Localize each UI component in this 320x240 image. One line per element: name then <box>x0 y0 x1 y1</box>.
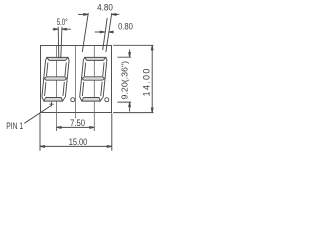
digit 2 seven-segment <box>79 57 107 101</box>
4.80 extension line left <box>82 13 88 52</box>
digit 2 segment A band fill <box>84 57 106 60</box>
digit 1 segment G outline <box>44 77 67 80</box>
7.50 extension tails <box>57 129 95 131</box>
svg-text:PIN 1: PIN 1 <box>6 121 23 131</box>
dim 15.00 line and arrows <box>40 145 112 147</box>
digit 2 segment G band fill <box>82 77 105 80</box>
svg-text:7.50: 7.50 <box>70 118 85 128</box>
5.0 deg extension lines <box>58 27 62 59</box>
digit 2 segment G outline <box>82 77 105 80</box>
9.20 extension ticks <box>118 57 132 102</box>
digit 1 segment D band fill <box>44 98 63 102</box>
0.80 extension line <box>103 18 108 50</box>
digit 1 seven-segment <box>41 57 69 101</box>
digit 2 segment A inner edge and joints <box>84 57 106 60</box>
wire center line digit1 <box>56 46 58 129</box>
digit 1 outer outline <box>41 57 69 101</box>
dim 9.20 vertical with outside arrows <box>129 49 131 53</box>
dim 0.80 left arrow <box>95 31 101 33</box>
digit 1 segment A band fill <box>46 57 68 60</box>
dim 0.80 right arrow <box>112 31 113 33</box>
svg-text:15.00: 15.00 <box>69 136 88 147</box>
dim 5.0deg left arrow <box>53 28 55 30</box>
digit 1 segment G band fill <box>44 77 67 80</box>
dim 7.50 line and arrows <box>57 126 95 128</box>
digit 1 segment D inner edge and joints <box>44 98 63 102</box>
15.00 extension lines <box>40 113 112 150</box>
svg-text:9.20(.36"): 9.20(.36") <box>119 61 129 100</box>
dim 4.80 left arrow <box>78 13 84 15</box>
digit 2 segment D inner edge and joints <box>82 98 101 102</box>
digit 2 outer outline <box>79 57 107 101</box>
digit 2 segment D band fill <box>82 98 101 102</box>
pin 1 leader <box>24 106 51 124</box>
pin 1 marker cross <box>49 102 53 106</box>
dim 5.0deg right arrow <box>66 28 71 30</box>
4.80 extension line right <box>106 13 112 52</box>
svg-text:0.80: 0.80 <box>118 22 133 32</box>
svg-text:5.0°: 5.0° <box>57 17 68 27</box>
digit 1 segments F E B C inner edges <box>45 63 67 97</box>
package outline <box>41 46 112 113</box>
wire center line package <box>75 46 77 119</box>
dim 4.80 right arrow <box>116 13 120 15</box>
digit 2 segments F E B C inner edges <box>82 63 104 97</box>
svg-text:14.00: 14.00 <box>142 69 152 97</box>
dim 14.00 line and arrows <box>151 45 153 112</box>
wire center line digit2 <box>93 46 95 129</box>
svg-text:4.80: 4.80 <box>97 2 113 12</box>
14.00 extension lines <box>113 45 153 112</box>
digit 1 segment A inner edge and joints <box>46 57 68 60</box>
decimal point DP1 <box>71 98 75 102</box>
decimal point DP2 <box>105 98 109 102</box>
